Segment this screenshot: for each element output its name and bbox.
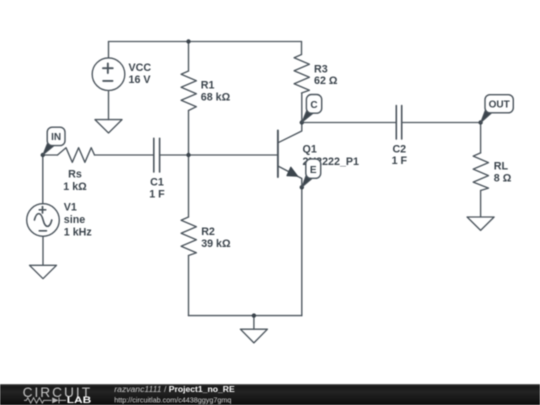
- svg-text:R1: R1: [201, 79, 215, 91]
- svg-text:1 F: 1 F: [149, 188, 165, 200]
- svg-text:Rs: Rs: [68, 169, 82, 181]
- svg-text:1 F: 1 F: [392, 155, 408, 167]
- svg-text:OUT: OUT: [489, 100, 510, 111]
- svg-text:IN: IN: [51, 132, 61, 143]
- svg-text:8 Ω: 8 Ω: [494, 173, 512, 185]
- svg-text:V1: V1: [64, 202, 77, 214]
- svg-text:R3: R3: [314, 64, 328, 76]
- svg-text:E: E: [310, 165, 317, 176]
- svg-text:VCC: VCC: [129, 62, 152, 74]
- svg-text:Q1: Q1: [303, 144, 317, 156]
- svg-text:LAB: LAB: [67, 395, 92, 405]
- svg-text:C: C: [310, 100, 317, 111]
- svg-text:sine: sine: [64, 214, 85, 226]
- svg-text:1 kΩ: 1 kΩ: [63, 181, 87, 193]
- svg-text:1 kHz: 1 kHz: [64, 227, 92, 239]
- svg-text:16 V: 16 V: [129, 74, 152, 86]
- svg-text:R2: R2: [201, 226, 215, 238]
- svg-text:62 Ω: 62 Ω: [314, 75, 338, 87]
- svg-text:39 kΩ: 39 kΩ: [201, 238, 231, 250]
- svg-text:68 kΩ: 68 kΩ: [201, 91, 231, 103]
- svg-text:http://circuitlab.com/c4438ggy: http://circuitlab.com/c4438ggyg7gmq: [114, 396, 231, 405]
- svg-text:RL: RL: [494, 161, 509, 173]
- svg-text:razvanc1111 / Project1_no_RE: razvanc1111 / Project1_no_RE: [114, 384, 235, 394]
- svg-text:C1: C1: [150, 176, 164, 188]
- svg-text:C2: C2: [392, 144, 406, 156]
